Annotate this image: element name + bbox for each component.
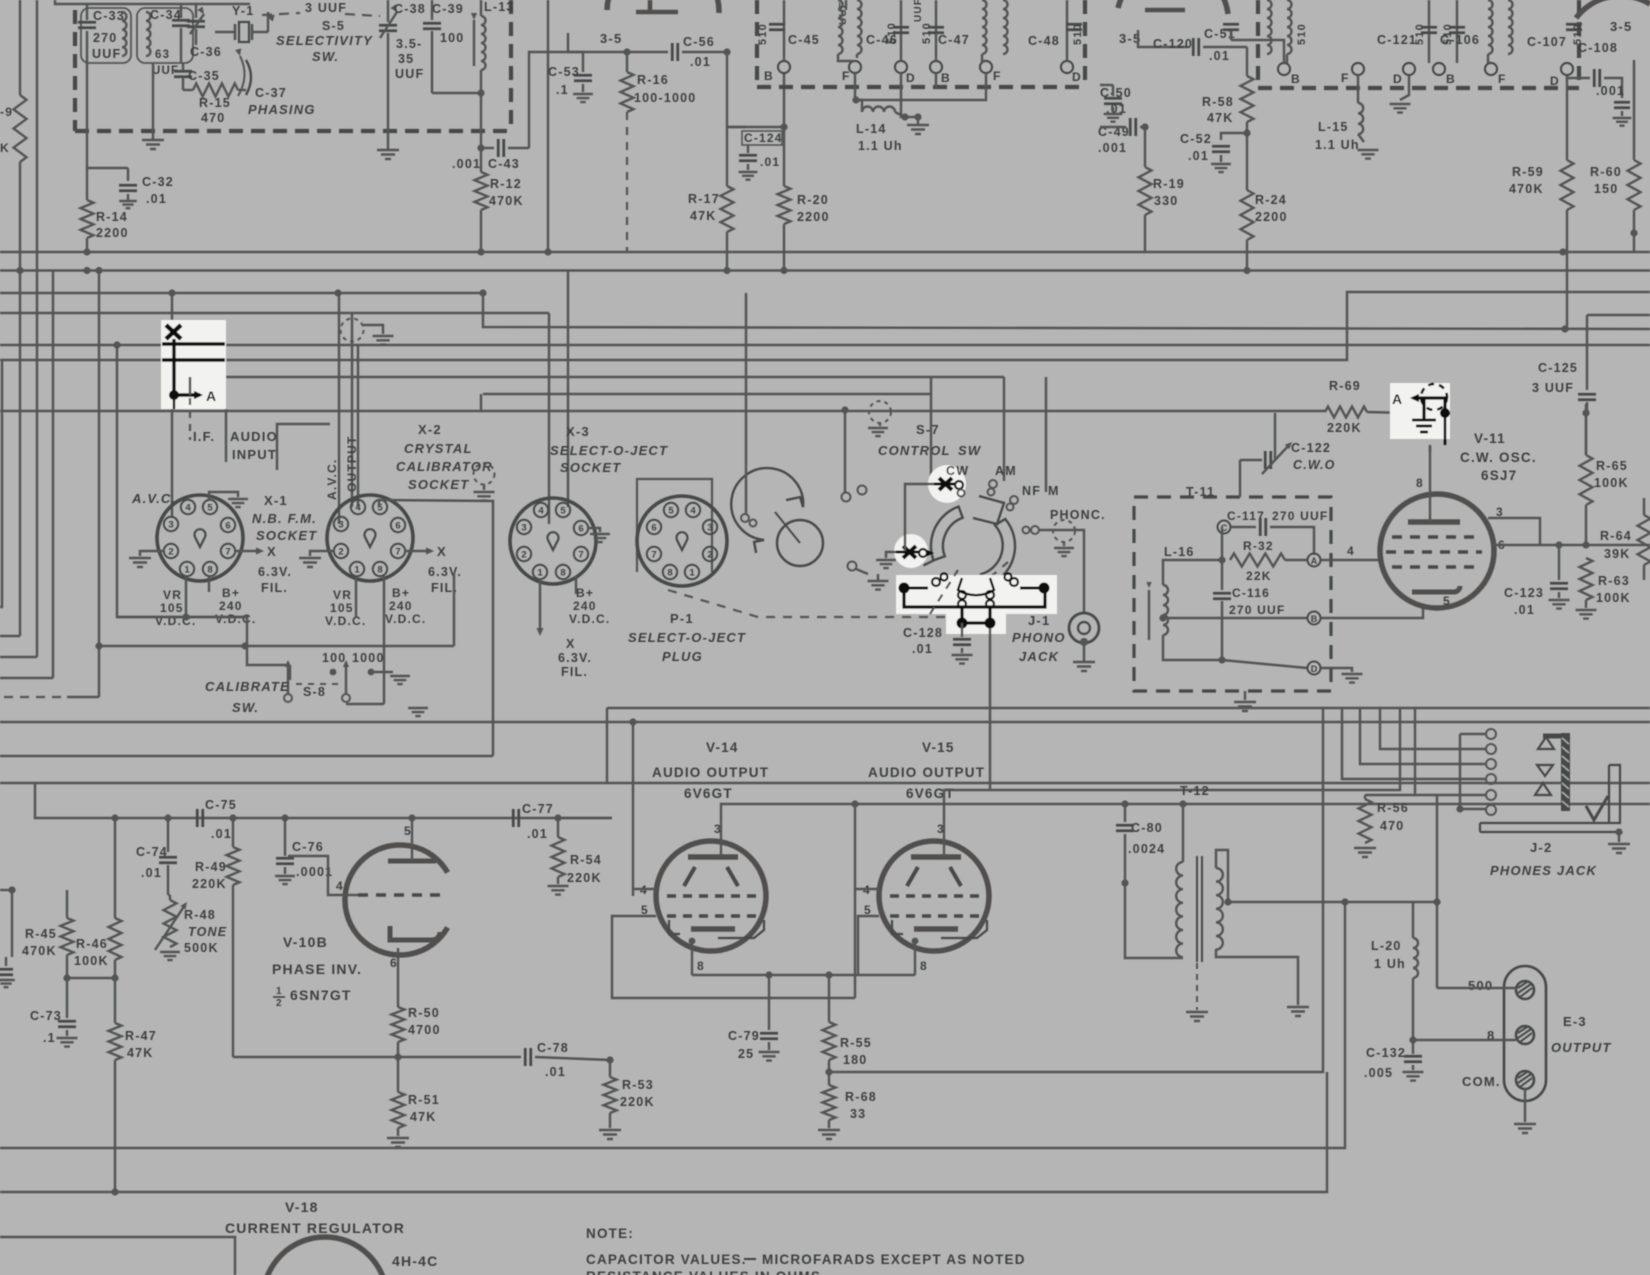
capacitor C-106 (1456, 0, 1458, 63)
svg-text:A.V.C.: A.V.C. (131, 491, 176, 506)
riser x358 (357, 345, 359, 507)
wire C-125 junction down (1585, 413, 1587, 455)
svg-text:6: 6 (225, 521, 230, 532)
svg-text:.01: .01 (690, 55, 711, 69)
svg-text:47K: 47K (690, 209, 717, 223)
svg-text:R-45: R-45 (25, 927, 57, 941)
S-7a contacts (842, 493, 851, 502)
wire bus y394 (483, 393, 931, 395)
capacitor C-53 (582, 52, 584, 72)
svg-text:510: 510 (1442, 23, 1454, 45)
svg-text:4: 4 (690, 506, 696, 517)
svg-text:NOTE:: NOTE: (586, 1226, 634, 1241)
svg-text:7: 7 (395, 547, 400, 558)
svg-text:R-63: R-63 (1598, 574, 1630, 588)
svg-text:X-2: X-2 (418, 422, 442, 437)
ground S-7a (868, 581, 889, 590)
wire C-76 to V10B grid (284, 817, 286, 819)
svg-text:100-1000: 100-1000 (634, 91, 696, 105)
wires jack to circles (1460, 733, 1486, 735)
svg-text:C-39: C-39 (432, 2, 464, 16)
svg-text:.1: .1 (43, 1031, 56, 1045)
svg-text:100: 100 (322, 651, 346, 665)
jack circles (1486, 729, 1496, 739)
annotation X left (903, 546, 916, 558)
capacitor C-32 (87, 167, 128, 169)
svg-text:220K: 220K (620, 1095, 655, 1109)
svg-text:8: 8 (667, 568, 672, 579)
svg-text:240: 240 (573, 599, 597, 613)
ground D3 (1400, 75, 1409, 100)
terminal strip E-3 (1504, 966, 1546, 1101)
svg-text:7: 7 (651, 550, 656, 561)
svg-text:SOCKET: SOCKET (560, 460, 621, 475)
tube far top-right arc (1576, 0, 1650, 18)
wire C-39 L-13 bottom (432, 92, 481, 94)
svg-text:E-3: E-3 (1563, 1014, 1587, 1029)
svg-text:22K: 22K (1246, 569, 1272, 583)
svg-text:.01: .01 (527, 827, 548, 841)
wire C-80 to primary bottom (1125, 883, 1183, 958)
wire L-13 down to C-43 (480, 93, 482, 172)
svg-text:L-16: L-16 (1164, 545, 1195, 559)
dashed circle PHONO sw (1053, 520, 1075, 542)
annotation lower dots bar (957, 618, 968, 629)
svg-text:2200: 2200 (1255, 210, 1288, 224)
wire bus y617 (117, 616, 247, 618)
resistor R-47 (114, 978, 116, 1023)
wire V-18 box (0, 1237, 235, 1275)
svg-text:47K: 47K (127, 1046, 154, 1060)
svg-text:.01: .01 (1188, 149, 1209, 163)
svg-text:D: D (1072, 70, 1082, 84)
svg-text:C-52: C-52 (1180, 132, 1212, 146)
svg-text:2200: 2200 (96, 226, 129, 240)
svg-text:PHONC.: PHONC. (1050, 508, 1106, 522)
svg-text:C-38: C-38 (394, 2, 426, 16)
svg-text:3: 3 (707, 523, 712, 534)
svg-text:4: 4 (355, 503, 361, 514)
wire bus y646 (99, 645, 454, 647)
svg-text:SELECT-O-JECT: SELECT-O-JECT (628, 630, 746, 645)
svg-text:A: A (1311, 556, 1318, 566)
capacitor C-46 (900, 0, 902, 61)
rotary switch S-7b arcs (924, 496, 1016, 595)
wire riser x1046 NF (1045, 377, 1047, 492)
svg-text:.01: .01 (141, 866, 162, 880)
svg-text:CALIBRATE: CALIBRATE (205, 679, 290, 694)
svg-text:C-78: C-78 (537, 1041, 569, 1055)
resistor R-58 (1246, 47, 1248, 76)
resistor R-19 (1144, 127, 1146, 167)
wire phono to jack (1039, 530, 1084, 612)
svg-text:AUDIO OUTPUT: AUDIO OUTPUT (868, 765, 985, 780)
annotation strip right (1039, 583, 1050, 594)
wire F2 to L-14 row (857, 73, 986, 100)
jack check mark (1586, 796, 1608, 820)
switch S-8 (287, 662, 289, 694)
annotation bold wires (162, 339, 225, 395)
svg-text:4: 4 (336, 879, 344, 893)
svg-text:2: 2 (521, 550, 526, 561)
svg-text:C-73: C-73 (30, 1009, 62, 1023)
wire bus y377 (190, 376, 1004, 378)
resistor R-60 (1633, 60, 1635, 160)
svg-text:C-121: C-121 (1377, 33, 1417, 47)
svg-text:MICROFARADS EXCEPT AS NOTED: MICROFARADS EXCEPT AS NOTED (762, 1252, 1026, 1267)
svg-text:R-12: R-12 (490, 177, 522, 191)
svg-text:2: 2 (338, 547, 343, 558)
annotation ground A (1422, 398, 1425, 420)
wire riser x931 (930, 377, 932, 490)
svg-text:500: 500 (1468, 978, 1493, 993)
svg-text:CW: CW (946, 464, 969, 478)
terminal B4 (1433, 63, 1445, 75)
svg-text:.01: .01 (146, 192, 167, 206)
svg-text:6V6GT: 6V6GT (684, 786, 733, 801)
wire risers to jack (1414, 708, 1416, 795)
resistor R-17 (721, 186, 734, 232)
wire plate line y52 (568, 51, 668, 53)
svg-text:C-47: C-47 (938, 33, 970, 47)
svg-text:J-1: J-1 (1028, 613, 1050, 628)
svg-text:C-108: C-108 (1578, 41, 1618, 55)
svg-text:B: B (1291, 72, 1301, 86)
svg-text:6: 6 (395, 521, 400, 532)
svg-text:.001: .001 (452, 157, 481, 171)
wire R-55 to right riser (829, 708, 1323, 1072)
svg-text:C-32: C-32 (142, 175, 174, 189)
riser x190 dashed (189, 377, 191, 395)
svg-text:V.D.C.: V.D.C. (325, 614, 366, 628)
svg-text:470K: 470K (1509, 182, 1544, 196)
terminal B (1163, 617, 1222, 619)
svg-text:1 Uh: 1 Uh (1374, 957, 1406, 971)
svg-text:5: 5 (560, 506, 566, 517)
terminal D4 (1561, 63, 1573, 75)
svg-text:D: D (1393, 72, 1403, 86)
capacitor C-43 (481, 147, 494, 149)
svg-text:AM: AM (995, 464, 1017, 478)
svg-text:L-20: L-20 (1371, 939, 1402, 953)
ground J-2 (1615, 828, 1622, 835)
ground T-12 core (1196, 963, 1198, 1010)
wire T-12 right top (1216, 850, 1228, 902)
terminal C (1218, 521, 1231, 534)
wire V-14 plate (721, 804, 1650, 820)
potentiometer R-48 tone (164, 900, 177, 947)
wire bus y757 (0, 755, 493, 757)
svg-text:.01: .01 (760, 155, 780, 169)
capacitor C-48 (1066, 0, 1068, 61)
svg-text:C-128: C-128 (903, 626, 943, 640)
svg-text:-9: -9 (0, 105, 13, 119)
resistor R-20 (780, 123, 787, 130)
svg-text:C-48: C-48 (1028, 34, 1060, 48)
svg-text:2: 2 (276, 998, 283, 1009)
svg-text:39K: 39K (1604, 547, 1631, 561)
capacitor C-76 (284, 818, 286, 856)
tube V-18 (263, 1237, 387, 1275)
svg-text:R-24: R-24 (1255, 193, 1287, 207)
riser x352 (351, 313, 353, 507)
wire riser x746 P-1 (745, 293, 747, 514)
ground below C-38 (387, 131, 389, 150)
svg-text:105: 105 (330, 601, 354, 615)
svg-text:C-116: C-116 (1232, 586, 1270, 600)
svg-text:4: 4 (538, 506, 544, 517)
resistor R-51 (392, 1092, 405, 1128)
annotation rotor tip (958, 578, 994, 595)
riser x117 avc (116, 345, 118, 576)
capacitor C-121 (1428, 0, 1430, 63)
dashed drop below R-16 (626, 112, 628, 252)
svg-text:3: 3 (338, 520, 343, 531)
svg-text:COM.: COM. (1462, 1074, 1501, 1089)
svg-text:1: 1 (276, 986, 283, 997)
svg-text:100: 100 (440, 31, 464, 45)
dashed pointer line (668, 562, 1008, 617)
wire C-77 to V-14 (558, 817, 612, 819)
svg-text:240: 240 (389, 599, 413, 613)
svg-text:4: 4 (185, 503, 191, 514)
resistor R-53 (606, 1056, 613, 1063)
svg-text:C-46: C-46 (866, 33, 898, 47)
wire V-15 grid drop (989, 628, 991, 790)
wire corner exit x53 (0, 677, 53, 679)
svg-text:R-17: R-17 (688, 192, 720, 206)
capacitor C-78 (233, 1056, 398, 1058)
V-10B plate (388, 859, 436, 864)
svg-text:C-53: C-53 (548, 65, 580, 79)
terminal B2 (930, 61, 942, 73)
jack bar (1561, 733, 1570, 811)
transformer T-12 (1176, 862, 1183, 957)
svg-text:C-45: C-45 (788, 33, 820, 47)
svg-text:510: 510 (757, 23, 769, 45)
dashed pointer through switch (930, 570, 958, 614)
wire X-3 pins (575, 576, 577, 594)
svg-text:8: 8 (207, 565, 212, 576)
svg-text:1: 1 (689, 568, 695, 579)
ground T-11 bottom (1244, 691, 1246, 700)
svg-text:100K: 100K (74, 954, 109, 968)
V-10B grid (358, 893, 448, 897)
svg-text:AUDIO OUTPUT: AUDIO OUTPUT (652, 765, 769, 780)
capacitor C-34 (137, 8, 193, 63)
capacitor C-35 (174, 71, 192, 77)
node bus dots (16, 267, 23, 274)
svg-text:35: 35 (398, 52, 414, 66)
tube V-4 envelope top (607, 0, 719, 13)
jack triangles (1535, 737, 1554, 795)
resistor R-68 (828, 1060, 830, 1085)
capacitor C-124 (727, 126, 746, 128)
socket X-1 (157, 495, 243, 581)
resistor R-16 (626, 52, 628, 72)
svg-text:6SJ7: 6SJ7 (1481, 468, 1517, 483)
dashed circle ground mid-left (341, 319, 364, 342)
wire bus y1148 (0, 902, 1345, 1148)
svg-text:SELECTIVITY: SELECTIVITY (276, 33, 373, 48)
wire bus y708 (607, 707, 1650, 709)
svg-text:R-20: R-20 (797, 193, 829, 207)
svg-text:220K: 220K (1327, 421, 1362, 435)
svg-text:F: F (1341, 71, 1350, 85)
resistor R-24 (1241, 190, 1254, 240)
tube V-11 (1380, 494, 1494, 608)
riser x172 (171, 293, 173, 320)
annotation X CW (939, 478, 952, 490)
svg-text:B: B (1446, 72, 1456, 86)
svg-text:C-76: C-76 (292, 840, 324, 854)
svg-text:SW.: SW. (232, 700, 259, 715)
capacitor C-123 (1558, 545, 1560, 580)
wire X-2 pin5 right (379, 500, 493, 756)
svg-text:V-14: V-14 (706, 740, 739, 755)
annotation X mark (166, 325, 181, 339)
svg-text:1: 1 (184, 565, 190, 576)
svg-text:4700: 4700 (408, 1023, 441, 1037)
white patch contacts strip (896, 575, 1057, 614)
svg-text:C-80: C-80 (1131, 821, 1163, 835)
wire C-122 into box (1239, 460, 1241, 497)
terminal B (778, 61, 790, 73)
riser x99 calibrate (98, 271, 100, 698)
svg-text:D: D (906, 71, 916, 85)
svg-text:R-32: R-32 (1243, 539, 1274, 553)
svg-text:6.3V.: 6.3V. (558, 651, 592, 665)
svg-text:3: 3 (521, 523, 526, 534)
svg-text:C-43: C-43 (488, 157, 520, 171)
svg-text:B: B (941, 71, 951, 85)
resistor R-63 (1580, 558, 1593, 600)
resistor R-50 (392, 1007, 405, 1042)
svg-text:6.3V.: 6.3V. (428, 565, 462, 579)
capacitor C-116 (1221, 560, 1223, 590)
tube V-15 (879, 841, 989, 951)
terminal F4 (1485, 63, 1497, 75)
svg-text:INPUT: INPUT (232, 447, 277, 462)
svg-text:B: B (1311, 614, 1318, 624)
svg-text:2: 2 (168, 547, 173, 558)
svg-text:C-107: C-107 (1527, 35, 1567, 49)
tube V-10B (345, 845, 448, 955)
svg-text:B+: B+ (392, 586, 410, 600)
inductor L-6 (1267, 0, 1272, 54)
svg-text:R-54: R-54 (570, 853, 602, 867)
resistor R-45 (61, 918, 74, 955)
wire V-11 plate to R-64 (1488, 518, 1540, 545)
svg-text:JACK: JACK (1019, 649, 1060, 664)
svg-text:5: 5 (668, 506, 674, 517)
wire bus y252 (0, 251, 1650, 253)
svg-text:2: 2 (707, 550, 712, 561)
riser x339 (338, 293, 340, 524)
svg-text:F: F (1498, 72, 1507, 86)
svg-text:PHASING: PHASING (248, 102, 316, 117)
capacitor C-74 (167, 818, 169, 852)
capacitor C-77 (513, 809, 519, 827)
svg-text:.001: .001 (1098, 141, 1127, 155)
svg-text:V.D.C.: V.D.C. (215, 612, 256, 626)
svg-text:C-33: C-33 (93, 9, 125, 23)
wire S7 left step (905, 484, 934, 551)
svg-text:5: 5 (207, 503, 213, 514)
terminal D (895, 61, 907, 73)
svg-text:R-68: R-68 (845, 1090, 877, 1104)
svg-text:B+: B+ (222, 586, 240, 600)
svg-text:F: F (993, 69, 1002, 83)
svg-text:220K: 220K (567, 871, 602, 885)
capacitor C-72 partial (0, 969, 13, 975)
svg-text:SOCKET: SOCKET (256, 528, 317, 543)
terminal F (849, 61, 861, 73)
capacitor C-79 (768, 975, 770, 1030)
wire X-2 pin1 down (355, 576, 357, 617)
svg-text:CONTROL: CONTROL (878, 443, 951, 458)
svg-text:C-120: C-120 (1153, 37, 1193, 51)
dashed IF box right segment (1258, 86, 1579, 90)
svg-text:4: 4 (1347, 544, 1355, 558)
svg-text:C-56: C-56 (683, 35, 715, 49)
svg-text:V-18: V-18 (285, 1199, 319, 1215)
svg-text:C-37: C-37 (255, 86, 287, 100)
svg-text:C-122: C-122 (1291, 441, 1331, 455)
svg-text:510: 510 (921, 22, 933, 44)
svg-text:C-123: C-123 (1504, 586, 1544, 600)
svg-text:270: 270 (93, 31, 117, 45)
V-10B cathode (390, 926, 440, 940)
wire B+ box X-1 (117, 576, 290, 665)
svg-text:5: 5 (1443, 594, 1451, 608)
wire A terminal to V-11 pin4 (1321, 559, 1380, 561)
svg-text:S-7: S-7 (916, 422, 940, 437)
svg-text:270 UUF: 270 UUF (1229, 603, 1285, 617)
svg-text:3: 3 (937, 822, 945, 836)
svg-text:SOCKET: SOCKET (408, 477, 469, 492)
svg-text:470: 470 (201, 111, 225, 125)
switch S-5 dashed link (262, 13, 300, 15)
svg-text:3 UUF: 3 UUF (305, 1, 347, 15)
wire audio y818 (35, 783, 612, 818)
wire T-12 right bottom to ground (1216, 949, 1298, 1005)
svg-text:3: 3 (168, 520, 173, 531)
wire bus y722 (0, 721, 1650, 723)
resistor R-32 (1218, 556, 1225, 563)
svg-text:510: 510 (1072, 23, 1084, 45)
svg-text:8: 8 (1416, 476, 1424, 490)
svg-text:D: D (1550, 74, 1560, 88)
svg-text:220K: 220K (192, 877, 227, 891)
svg-text:6.3V.: 6.3V. (258, 565, 292, 579)
svg-text:.01: .01 (912, 642, 933, 656)
terminal D3 (1403, 63, 1415, 75)
svg-text:1: 1 (537, 568, 543, 579)
svg-text:8: 8 (697, 959, 705, 973)
svg-text:330: 330 (1154, 194, 1178, 208)
svg-text:V-10B: V-10B (283, 934, 328, 950)
resistor R-55 (828, 975, 830, 1022)
wire plate drop x855 (854, 804, 856, 998)
wire to V-14 pin4 (632, 722, 634, 896)
svg-text:VR: VR (333, 588, 352, 602)
svg-text:.01: .01 (545, 1065, 566, 1079)
svg-text:8: 8 (560, 568, 565, 579)
wire frame P-1 (637, 479, 712, 572)
svg-text:510: 510 (1296, 23, 1308, 45)
terminal A (1308, 554, 1321, 567)
